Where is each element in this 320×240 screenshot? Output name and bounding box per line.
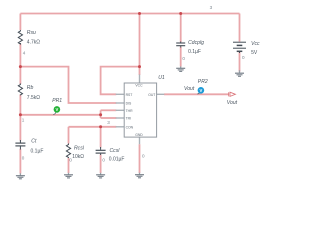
svg-text:0: 0 [242,55,245,60]
svg-text:0: 0 [22,156,25,161]
svg-text:0: 0 [102,158,105,163]
svg-text:Vout: Vout [227,100,238,106]
svg-text:Vout: Vout [184,86,195,92]
svg-text:0: 0 [182,56,185,61]
svg-text:TRI: TRI [126,117,132,121]
svg-text:Rcsl: Rcsl [74,145,85,151]
svg-text:Rb: Rb [27,85,34,91]
svg-text:3: 3 [210,5,213,10]
svg-text:V: V [56,107,59,112]
svg-text:0: 0 [69,158,72,163]
svg-text:DIS: DIS [126,102,132,106]
svg-text:Ccsl: Ccsl [110,148,121,154]
svg-text:OUT: OUT [148,93,155,97]
svg-text:PR2: PR2 [198,79,208,85]
svg-text:5V: 5V [251,50,258,56]
svg-text:0: 0 [142,154,145,159]
svg-text:7.5kΩ: 7.5kΩ [27,95,40,101]
svg-text:0.1µF: 0.1µF [31,148,44,154]
svg-text:PR1: PR1 [52,98,62,104]
svg-text:0.1µF: 0.1µF [188,49,201,55]
svg-text:4.7kΩ: 4.7kΩ [27,39,40,45]
svg-text:1: 1 [22,117,25,122]
svg-text:Cdcplg: Cdcplg [188,40,204,46]
svg-text:CON: CON [126,125,134,129]
svg-text:0.01µF: 0.01µF [109,157,125,163]
svg-text:THR: THR [126,109,134,113]
svg-text:V: V [200,88,203,93]
svg-text:4: 4 [23,51,26,56]
svg-text:Vcc: Vcc [251,41,260,47]
svg-text:3: 3 [107,120,110,125]
svg-text:RST: RST [126,93,133,97]
svg-text:10kΩ: 10kΩ [72,154,84,160]
svg-text:GND: GND [135,133,143,137]
svg-text:Rsu: Rsu [27,30,36,36]
svg-text:VCC: VCC [135,84,143,88]
svg-text:Ct: Ct [31,139,37,145]
svg-text:U1: U1 [158,75,165,81]
